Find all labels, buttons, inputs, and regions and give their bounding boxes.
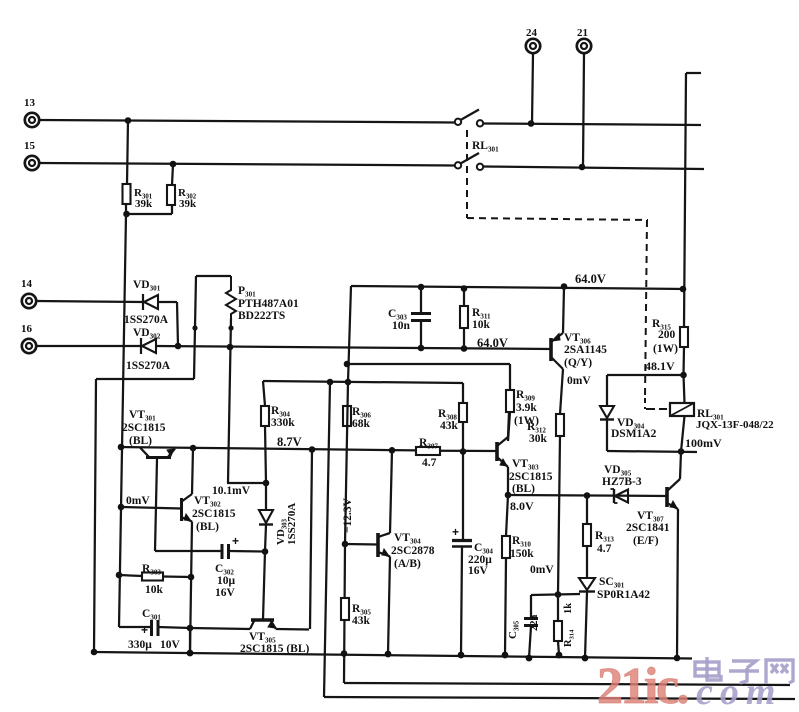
svg-text:0mV: 0mV — [126, 495, 150, 507]
svg-text:10μ: 10μ — [217, 575, 236, 587]
svg-text:SP0R1A42: SP0R1A42 — [597, 589, 650, 601]
svg-text:10k: 10k — [472, 319, 491, 331]
svg-text:24: 24 — [526, 27, 538, 39]
svg-text:3.9k: 3.9k — [516, 402, 537, 414]
svg-text:2SC1815: 2SC1815 — [192, 508, 236, 520]
svg-text:39k: 39k — [179, 198, 197, 210]
svg-text:BD222TS: BD222TS — [238, 310, 285, 322]
svg-text:(BL): (BL) — [129, 435, 152, 447]
svg-text:4.7: 4.7 — [422, 457, 437, 469]
svg-text:+: + — [232, 534, 239, 548]
svg-text:68k: 68k — [352, 418, 371, 430]
svg-text:1SS270A: 1SS270A — [126, 360, 171, 372]
svg-text:DSM1A2: DSM1A2 — [611, 428, 657, 440]
svg-text:0mV: 0mV — [530, 564, 554, 576]
svg-text:16V: 16V — [215, 587, 236, 599]
svg-text:16V: 16V — [468, 565, 489, 577]
svg-text:15: 15 — [24, 140, 36, 152]
svg-text:2SA1145: 2SA1145 — [564, 344, 607, 356]
svg-text:2SC1815: 2SC1815 — [509, 471, 553, 483]
svg-text:1SS270A: 1SS270A — [124, 314, 169, 326]
svg-text:43k: 43k — [352, 615, 371, 627]
svg-text:48.1V: 48.1V — [645, 359, 675, 373]
svg-text:150k: 150k — [510, 548, 534, 560]
svg-text:(BL): (BL) — [512, 483, 535, 495]
svg-text:2SC2878: 2SC2878 — [391, 545, 435, 557]
svg-text:10n: 10n — [392, 320, 411, 332]
svg-text:−12.3V: −12.3V — [342, 497, 354, 533]
svg-text:JQX-13F-048/22: JQX-13F-048/22 — [696, 419, 774, 431]
svg-text:(E/F): (E/F) — [633, 535, 659, 547]
svg-text:4.7: 4.7 — [597, 543, 612, 555]
svg-text:21: 21 — [577, 27, 588, 39]
svg-text:+: + — [141, 623, 148, 637]
svg-text:8.0V: 8.0V — [510, 499, 534, 513]
svg-text:200: 200 — [658, 329, 676, 341]
svg-text:8.7V: 8.7V — [277, 435, 302, 449]
svg-text:(1W): (1W) — [514, 415, 539, 427]
svg-text:10k: 10k — [145, 584, 164, 596]
svg-text:13: 13 — [24, 97, 36, 109]
svg-text:0mV: 0mV — [567, 375, 591, 387]
svg-text:2SC1841: 2SC1841 — [626, 522, 670, 534]
svg-text:100mV: 100mV — [685, 436, 722, 450]
svg-text:330μ: 330μ — [128, 639, 152, 651]
svg-text:1k: 1k — [563, 603, 574, 614]
svg-text:1SS270A: 1SS270A — [286, 503, 298, 545]
svg-text:(BL): (BL) — [196, 521, 219, 533]
svg-text:21ic.: 21ic. — [597, 658, 688, 707]
svg-text:39k: 39k — [135, 198, 153, 210]
svg-text:(1W): (1W) — [653, 343, 678, 355]
svg-text:10.1mV: 10.1mV — [212, 485, 251, 497]
svg-text:(A/B): (A/B) — [394, 558, 421, 570]
svg-text:330k: 330k — [271, 417, 295, 429]
svg-text:10V: 10V — [160, 639, 181, 651]
svg-text:64.0V: 64.0V — [477, 336, 508, 350]
svg-text:(Q/Y): (Q/Y) — [564, 357, 592, 369]
svg-text:HZ7B-3: HZ7B-3 — [602, 476, 642, 488]
svg-text:+: + — [452, 525, 459, 539]
svg-text:14: 14 — [21, 278, 33, 290]
svg-text:2SC1815: 2SC1815 — [122, 422, 166, 434]
svg-text:30k: 30k — [529, 433, 548, 445]
svg-text:43k: 43k — [440, 420, 459, 432]
svg-text:22n: 22n — [529, 615, 540, 632]
svg-text:PTH487A01: PTH487A01 — [238, 298, 299, 310]
svg-text:64.0V: 64.0V — [575, 272, 606, 286]
svg-text:16: 16 — [21, 323, 33, 335]
